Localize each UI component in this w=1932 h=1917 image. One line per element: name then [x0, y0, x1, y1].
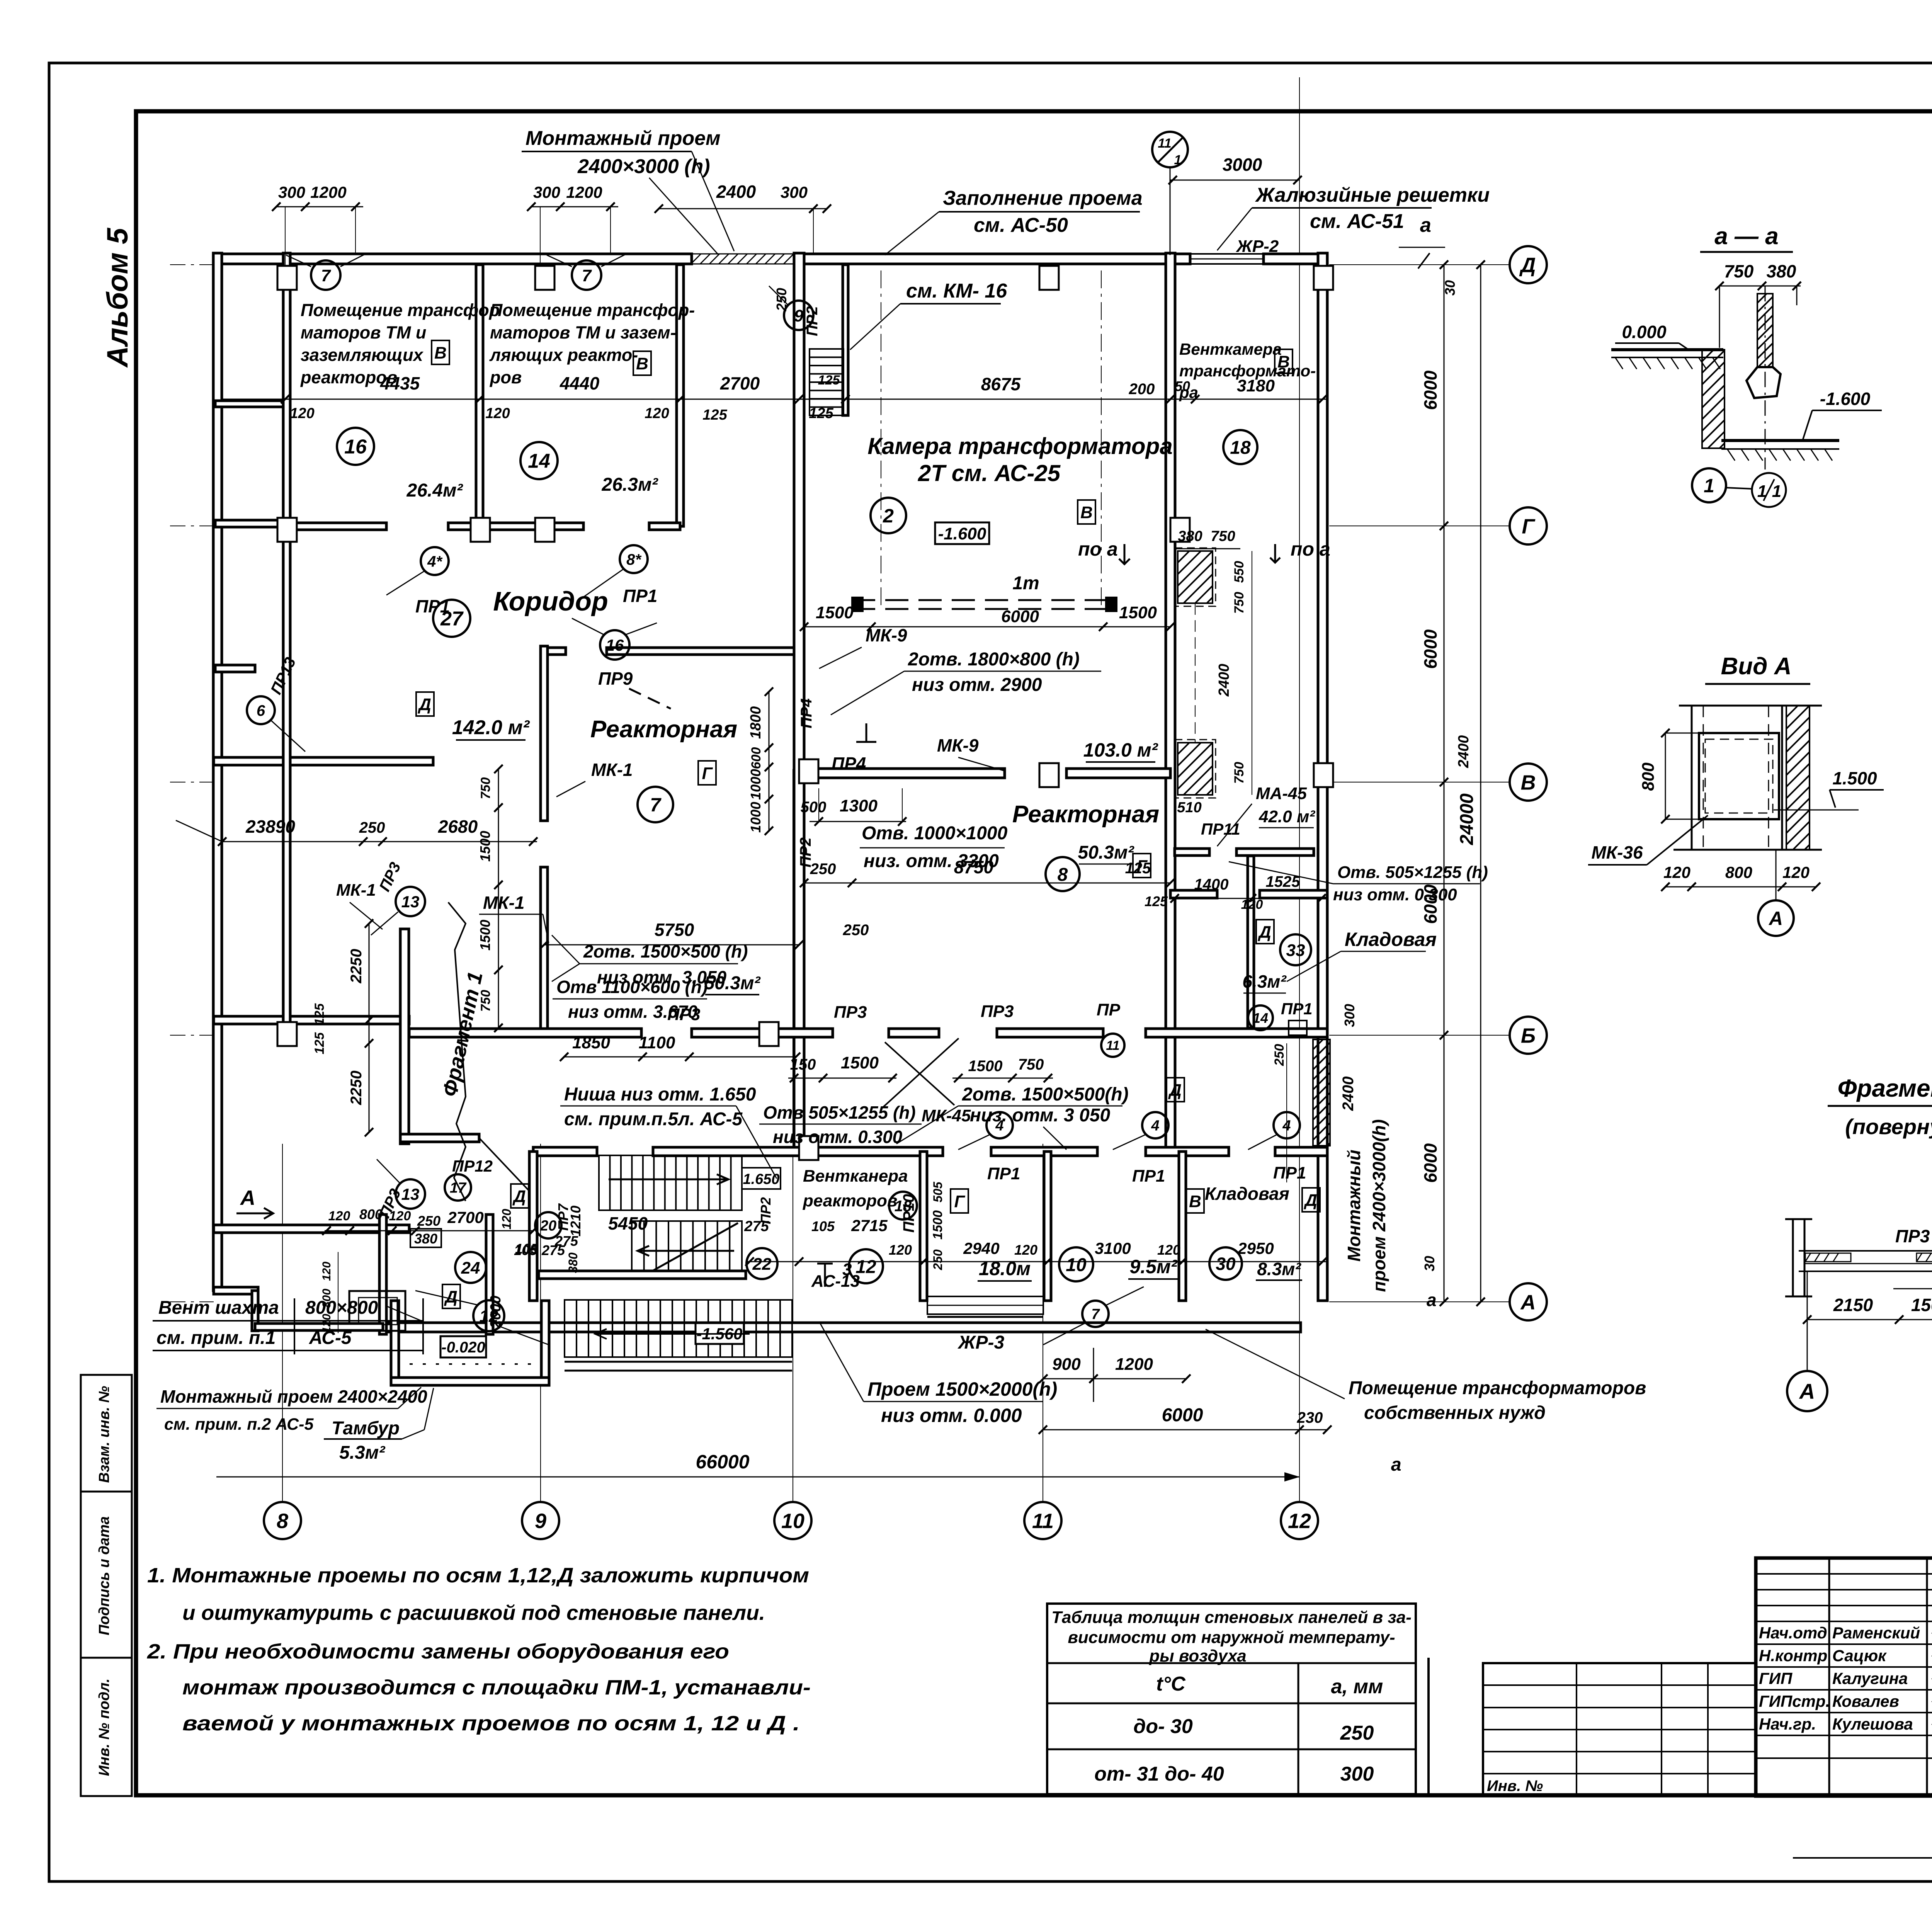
svg-text:900: 900: [1052, 1355, 1081, 1374]
level box -1.600: [935, 522, 989, 544]
svg-text:ПР: ПР: [1097, 1000, 1121, 1019]
svg-text:по а: по а: [1078, 538, 1118, 560]
view A shaft walls: [1679, 705, 1822, 707]
svg-text:Отв 1100×600 (h): Отв 1100×600 (h): [556, 977, 707, 997]
svg-text:2отв. 1500×500(h): 2отв. 1500×500(h): [962, 1084, 1129, 1105]
T3 mark: [817, 1264, 833, 1287]
svg-text:5.3м²: 5.3м²: [339, 1442, 386, 1463]
svg-text:250: 250: [931, 1249, 945, 1271]
svg-text:Д: Д: [1257, 923, 1271, 942]
vertical wall right of room 14: [677, 265, 684, 526]
svg-text:18.0м: 18.0м: [979, 1258, 1031, 1279]
svg-text:ПР9: ПР9: [598, 668, 633, 689]
svg-text:1100: 1100: [639, 1033, 675, 1052]
svg-text:1500: 1500: [841, 1053, 879, 1072]
svg-text:Реакторная: Реакторная: [590, 716, 737, 743]
left dim chain 750 1500 1500 750: [498, 769, 499, 1028]
svg-text:2150: 2150: [1833, 1295, 1873, 1315]
stairwell lower flight treads: [632, 1221, 742, 1271]
svg-text:16: 16: [606, 636, 624, 654]
svg-text:В: В: [1277, 352, 1290, 371]
svg-text:13: 13: [401, 1185, 420, 1203]
svg-text:4: 4: [995, 1118, 1003, 1134]
svg-text:Венткамера: Венткамера: [1179, 340, 1282, 358]
box 380: [410, 1229, 441, 1247]
svg-text:МК-1: МК-1: [336, 881, 376, 900]
svg-text:МК-9: МК-9: [937, 735, 979, 755]
svg-text:1525: 1525: [1266, 873, 1301, 890]
svg-text:8*: 8*: [626, 551, 642, 568]
svg-text:230: 230: [1297, 1409, 1323, 1426]
svg-text:Нач.гр.: Нач.гр.: [1759, 1715, 1816, 1733]
dim 8750 row: [804, 883, 1170, 884]
svg-text:1210: 1210: [568, 1206, 583, 1237]
circle 12 room: [849, 1249, 883, 1283]
svg-text:ляющих реакто-: ляющих реакто-: [489, 345, 638, 365]
svg-text:ПР10: ПР10: [900, 1194, 917, 1233]
svg-text:Г: Г: [1522, 515, 1536, 538]
svg-text:Инв. № подл.: Инв. № подл.: [96, 1679, 112, 1776]
svg-text:380: 380: [566, 1252, 580, 1273]
view A axis circle A: [1776, 850, 1777, 900]
svg-text:1500: 1500: [1119, 603, 1157, 622]
circle 17 PR12: [445, 1174, 471, 1201]
svg-text:1800: 1800: [748, 706, 764, 739]
svg-text:см. прим.п.5л. АС-5: см. прим.п.5л. АС-5: [564, 1109, 743, 1129]
svg-text:120: 120: [500, 1209, 514, 1230]
svg-text:300: 300: [781, 183, 808, 201]
fragment 1 left column: [1793, 1219, 1804, 1296]
svg-text:1000: 1000: [748, 802, 764, 833]
svg-text:510: 510: [1177, 799, 1201, 816]
svg-text:250: 250: [1272, 1044, 1287, 1067]
door circle 16 PR9: [600, 630, 629, 660]
stairwell bottom wall: [539, 1271, 746, 1279]
bottom band top wall: [533, 1147, 597, 1156]
vent squares right column: [1178, 551, 1213, 603]
svg-text:4: 4: [1151, 1118, 1159, 1134]
axis V wall MK-9: [804, 769, 1005, 778]
svg-text:6000: 6000: [1162, 1405, 1203, 1425]
svg-text:низ отм. 0.300: низ отм. 0.300: [773, 1127, 903, 1147]
svg-text:120: 120: [485, 405, 510, 422]
room 33 circle: [1280, 934, 1311, 965]
svg-text:1.650: 1.650: [743, 1171, 779, 1187]
kamera circle 2: [871, 498, 906, 533]
svg-text:см. прим. п.1: см. прим. п.1: [156, 1328, 276, 1348]
svg-text:4*: 4*: [427, 553, 443, 570]
svg-text:Д: Д: [512, 1187, 526, 1206]
svg-text:Ниша низ отм. 1.650: Ниша низ отм. 1.650: [564, 1084, 756, 1105]
svg-text:750: 750: [1232, 592, 1247, 614]
vent shaft box: [349, 1291, 405, 1331]
svg-text:ПР12: ПР12: [452, 1157, 493, 1175]
svg-text:Вид А: Вид А: [1721, 653, 1792, 680]
svg-text:В: В: [434, 344, 447, 362]
svg-text:см. КМ- 16: см. КМ- 16: [906, 280, 1007, 302]
svg-text:Д: Д: [444, 1288, 457, 1306]
zhr-3 grille bottom: [927, 1296, 1043, 1314]
svg-text:9.5м²: 9.5м²: [1129, 1256, 1177, 1277]
svg-text:по а: по а: [1291, 538, 1330, 560]
svg-text:1850: 1850: [572, 1033, 610, 1052]
svg-text:26.4м²: 26.4м²: [406, 480, 464, 501]
left bottom corner walls: [214, 1287, 258, 1294]
svg-text:120: 120: [290, 405, 314, 422]
svg-text:1300: 1300: [840, 796, 878, 815]
svg-text:30: 30: [1442, 280, 1458, 296]
dim 1850 1100: [564, 1056, 796, 1058]
svg-text:2400: 2400: [1340, 1077, 1357, 1111]
svg-text:800: 800: [359, 1206, 383, 1222]
svg-text:125: 125: [702, 407, 727, 423]
svg-text:103.0 м²: 103.0 м²: [1083, 739, 1158, 761]
svg-text:22: 22: [752, 1255, 772, 1274]
svg-text:t°C: t°C: [1156, 1673, 1186, 1695]
svg-text:800×800: 800×800: [305, 1298, 378, 1318]
svg-text:ПР2: ПР2: [804, 306, 821, 336]
svg-text:26.3м²: 26.3м²: [602, 475, 659, 495]
svg-text:МК-45: МК-45: [922, 1106, 971, 1125]
room 16 circle: [337, 428, 374, 465]
svg-text:2700: 2700: [720, 373, 760, 393]
svg-text:1500: 1500: [930, 1210, 945, 1240]
svg-text:Монтажный проем 2400×2400: Монтажный проем 2400×2400: [160, 1386, 427, 1407]
door circles 4 bottom band: [986, 1112, 1013, 1138]
svg-text:120: 120: [320, 1314, 333, 1333]
room 33 box D: [1256, 920, 1274, 944]
svg-text:120: 120: [1782, 863, 1810, 881]
level box -0.020: [440, 1336, 486, 1357]
svg-text:250: 250: [359, 819, 385, 836]
wall right of stair km-16: [843, 265, 848, 415]
view A bottom break line: [1673, 849, 1822, 851]
box D near PR: [1167, 1078, 1184, 1102]
svg-text:1: 1: [1174, 153, 1182, 167]
svg-text:30: 30: [1422, 1256, 1437, 1271]
svg-text:8675: 8675: [981, 374, 1021, 394]
svg-text:50.3м²: 50.3м²: [704, 973, 761, 993]
svg-text:125: 125: [818, 373, 840, 388]
svg-text:2250: 2250: [348, 949, 365, 984]
svg-text:4440: 4440: [560, 373, 600, 393]
svg-text:Подпись и дата: Подпись и дата: [96, 1516, 112, 1635]
left rooms divider wall y1730: [215, 665, 255, 672]
stairwell upper flight treads: [599, 1155, 742, 1210]
svg-text:11: 11: [1106, 1038, 1119, 1053]
svg-text:142.0 м²: 142.0 м²: [452, 716, 530, 739]
svg-text:7: 7: [1091, 1306, 1100, 1323]
circle 10 room: [1059, 1247, 1093, 1281]
section a-a embedded part: [1757, 294, 1773, 367]
svg-text:а: а: [1420, 214, 1431, 236]
svg-text:от- 31 до- 40: от- 31 до- 40: [1094, 1763, 1224, 1785]
svg-text:Жалюзийные решетки: Жалюзийные решетки: [1255, 184, 1490, 206]
svg-text:6: 6: [257, 702, 265, 719]
main wall x3029: [1166, 253, 1175, 1147]
svg-text:1: 1: [1704, 475, 1714, 497]
svg-text:120: 120: [645, 405, 669, 422]
svg-text:Д: Д: [1519, 253, 1536, 277]
svg-text:4: 4: [1282, 1118, 1291, 1134]
svg-text:1. Монтажные проемы по о: 1. Монтажные проемы по осям 1,12,Д залож…: [147, 1564, 809, 1587]
title block left small rows: [1756, 1573, 1932, 1575]
svg-text:2700: 2700: [447, 1208, 483, 1226]
svg-text:250: 250: [843, 922, 869, 939]
svg-text:Д: Д: [417, 695, 431, 714]
svg-text:125: 125: [312, 1032, 327, 1055]
boxes bottom band: [511, 1184, 529, 1208]
svg-text:800: 800: [1725, 863, 1752, 881]
svg-text:см. АС-51: см. АС-51: [1310, 210, 1404, 233]
svg-text:Монтажный проем: Монтажный проем: [526, 127, 721, 150]
title block frame: [1756, 1558, 1932, 1796]
svg-text:а: а: [1391, 1454, 1401, 1475]
svg-text:реакторов: реакторов: [803, 1191, 897, 1210]
room 33 dividing wall: [1170, 890, 1217, 898]
svg-text:Коридор: Коридор: [493, 586, 608, 616]
svg-text:Г: Г: [702, 764, 713, 783]
svg-text:30: 30: [1216, 1254, 1236, 1274]
svg-text:11: 11: [1158, 136, 1171, 151]
svg-text:2940: 2940: [963, 1239, 999, 1257]
svg-text:800: 800: [1639, 762, 1658, 791]
door circle 14 PR1 right: [1248, 1005, 1273, 1030]
svg-text:505: 505: [931, 1181, 945, 1203]
left dim chain 1800 600 1000 1000: [769, 692, 770, 831]
svg-text:66000: 66000: [696, 1451, 749, 1473]
tambour vestibule: [391, 1301, 399, 1385]
svg-text:проем 2400×3000(h): проем 2400×3000(h): [1369, 1119, 1389, 1292]
svg-text:а: а: [1427, 1290, 1437, 1310]
axis dashdot stubs left: [170, 264, 214, 265]
right axis lines to circles: [1329, 264, 1509, 265]
bottom wall of rooms 16 14 with door gaps: [287, 523, 386, 530]
section a-a node circles 1 and 1/1: [1692, 468, 1726, 502]
svg-text:ров: ров: [490, 367, 522, 387]
door circle 6 PR13 left: [247, 696, 275, 724]
axis line 10: [793, 769, 793, 1502]
section a-a floor slab left: [1611, 348, 1723, 351]
svg-text:низ отм. 0.000: низ отм. 0.000: [881, 1405, 1022, 1426]
dim 23890 250 2680: [222, 841, 537, 842]
svg-text:300: 300: [1342, 1004, 1357, 1027]
main longitudinal wall x2068: [794, 253, 804, 1147]
dim 5750 row: [544, 944, 799, 946]
svg-text:2950: 2950: [1237, 1239, 1274, 1257]
fragment cut circles 13: [396, 887, 425, 916]
wall thickness table: [1047, 1604, 1416, 1794]
svg-text:6000: 6000: [1001, 607, 1039, 626]
bottom exterior wall of lower band: [383, 1323, 1301, 1332]
svg-text:250: 250: [774, 288, 789, 311]
svg-text:Д: Д: [1303, 1191, 1317, 1210]
svg-text:150: 150: [790, 1056, 816, 1073]
svg-text:маторов ТМ и зазем-: маторов ТМ и зазем-: [490, 323, 676, 342]
svg-text:250: 250: [417, 1213, 440, 1229]
svg-text:Отв 505×1255 (h): Отв 505×1255 (h): [763, 1102, 916, 1123]
tambour right wall: [486, 1214, 493, 1334]
svg-text:ПР1: ПР1: [623, 586, 657, 606]
svg-text:120: 120: [320, 1262, 333, 1281]
svg-text:а — а: а — а: [1714, 223, 1778, 250]
dash-dot line near stair: [881, 270, 881, 607]
bottom band wall x3060: [1179, 1152, 1186, 1301]
svg-text:В: В: [1521, 771, 1536, 794]
svg-text:2Т см. АС-25: 2Т см. АС-25: [918, 460, 1061, 486]
bottom left rooms wall: [214, 1225, 409, 1233]
svg-text:Помещение трансфор-: Помещение трансфор-: [490, 300, 695, 320]
svg-text:Помещение трансфор: Помещение трансфор: [301, 300, 500, 320]
inventory grid left of title block: [1483, 1663, 1756, 1796]
room 14 circle: [520, 442, 558, 479]
top node circle 11/1: [1152, 132, 1188, 167]
svg-text:250: 250: [810, 861, 836, 878]
svg-text:275: 275: [744, 1218, 769, 1235]
right vertical dim line 24000: [1480, 265, 1481, 1302]
svg-text:9: 9: [535, 1509, 546, 1533]
circle 22 stairwell: [747, 1248, 777, 1279]
svg-text:1400: 1400: [1194, 876, 1229, 893]
svg-text:Фрагмент 1: Фрагмент 1: [1837, 1074, 1932, 1102]
level 1.650 box: [742, 1168, 781, 1189]
top exterior wall: [214, 254, 692, 264]
svg-text:250: 250: [1340, 1722, 1374, 1744]
svg-text:1: 1: [1772, 482, 1781, 501]
svg-text:14: 14: [528, 450, 550, 473]
svg-text:1500: 1500: [816, 603, 854, 622]
svg-text:ПР1: ПР1: [1132, 1167, 1165, 1186]
svg-text:и оштукатурить с расшивкой: и оштукатурить с расшивкой под стеновые …: [182, 1601, 765, 1624]
svg-text:Отв. 505×1255 (h): Отв. 505×1255 (h): [1337, 863, 1488, 882]
svg-text:МК-9: МК-9: [866, 625, 907, 645]
door circle 4*: [421, 547, 449, 575]
svg-text:6.3м²: 6.3м²: [1242, 971, 1287, 992]
svg-text:(повернута): (повернута): [1845, 1114, 1932, 1139]
svg-text:750: 750: [1724, 261, 1754, 281]
svg-text:3000: 3000: [1223, 155, 1262, 175]
svg-text:2. При необходимости замены: 2. При необходимости замены оборудования…: [147, 1640, 729, 1663]
svg-text:1500: 1500: [477, 920, 493, 951]
svg-text:см. АС-50: см. АС-50: [974, 214, 1068, 236]
svg-text:3100: 3100: [1095, 1239, 1131, 1257]
bottom band dim row: [746, 1261, 1327, 1262]
svg-text:750: 750: [1211, 528, 1235, 544]
svg-text:МА-45: МА-45: [1256, 784, 1307, 803]
svg-text:Заполнение проема: Заполнение проема: [943, 187, 1143, 209]
door swing diagonals B wall: [881, 1038, 959, 1109]
bottom band wall x1380: [529, 1152, 537, 1301]
svg-text:125: 125: [1145, 893, 1168, 909]
fragment jog wall bottom: [400, 1134, 479, 1142]
svg-text:20: 20: [540, 1218, 556, 1234]
svg-text:2000: 2000: [488, 1296, 504, 1329]
svg-text:16: 16: [344, 436, 367, 458]
svg-text:Альбом 5: Альбом 5: [101, 227, 134, 368]
svg-text:5750: 5750: [655, 920, 694, 940]
svg-text:300: 300: [278, 183, 305, 201]
svg-text:300: 300: [533, 183, 560, 201]
svg-text:380: 380: [414, 1231, 437, 1247]
svg-text:Вентканера: Вентканера: [803, 1167, 908, 1186]
svg-text:Н.контр: Н.контр: [1759, 1647, 1827, 1665]
axis line 8: [282, 1144, 283, 1502]
vertical wall between rooms 16 and 14: [476, 265, 483, 526]
svg-text:14: 14: [1253, 1010, 1268, 1026]
dim row 4435 4440 2700 etc: [222, 399, 1327, 400]
room 33 top wall: [1175, 849, 1209, 856]
svg-text:1500: 1500: [477, 831, 493, 862]
svg-text:1000: 1000: [748, 769, 764, 800]
circle 30 room: [1209, 1247, 1242, 1280]
svg-text:125: 125: [312, 1003, 327, 1026]
wall between rooms 15 and 16 horizontal: [215, 401, 287, 407]
svg-text:23890: 23890: [245, 816, 295, 837]
svg-text:ра: ра: [1179, 383, 1198, 401]
svg-text:1т: 1т: [1012, 573, 1039, 594]
svg-text:27: 27: [440, 608, 464, 630]
svg-text:10: 10: [781, 1509, 804, 1533]
svg-text:Кладовая: Кладовая: [1205, 1184, 1289, 1204]
svg-text:ПР4: ПР4: [798, 698, 815, 728]
svg-text:Монтажный: Монтажный: [1344, 1150, 1364, 1262]
section a-a bottom slab: [1721, 439, 1839, 442]
svg-text:Калугина: Калугина: [1832, 1669, 1908, 1687]
lower protruding stair: [565, 1300, 792, 1357]
room 7 top wall with PR9 gap: [544, 648, 566, 655]
svg-text:12: 12: [1288, 1509, 1311, 1533]
level box -1.560: [696, 1323, 744, 1344]
svg-text:120: 120: [1157, 1242, 1180, 1258]
svg-text:7: 7: [650, 794, 662, 816]
svg-text:см. прим. п.2 АС-5: см. прим. п.2 АС-5: [164, 1415, 314, 1434]
fragment jog wall vertical: [400, 929, 409, 1144]
svg-text:Взам. инв. №: Взам. инв. №: [96, 1386, 112, 1483]
svg-text:120: 120: [889, 1242, 912, 1258]
svg-text:120: 120: [1663, 863, 1690, 881]
svg-text:Таблица толщин стеновых панеле: Таблица толщин стеновых панелей в за-: [1051, 1608, 1412, 1627]
svg-text:2400×3000 (h): 2400×3000 (h): [577, 155, 710, 178]
svg-text:600: 600: [749, 747, 764, 769]
axis line 9: [540, 1144, 541, 1502]
fragment 1 dims: [1807, 1319, 1932, 1320]
svg-text:2отв. 1800×800 (h): 2отв. 1800×800 (h): [908, 649, 1080, 670]
svg-text:Вент шахта: Вент шахта: [158, 1298, 279, 1318]
svg-text:а, мм: а, мм: [1331, 1675, 1383, 1698]
room 14 category box: [633, 351, 651, 375]
svg-text:А: А: [1768, 908, 1783, 929]
corridor circle 27: [433, 600, 470, 637]
svg-text:Д: Д: [1168, 1081, 1182, 1100]
svg-text:Г: Г: [954, 1192, 965, 1211]
svg-text:120: 120: [389, 1209, 411, 1223]
hatched opening right wall: [1313, 1039, 1330, 1146]
svg-text:42.0 м²: 42.0 м²: [1259, 807, 1315, 826]
svg-text:ЖР-3: ЖР-3: [957, 1332, 1005, 1353]
svg-text:550: 550: [1232, 561, 1247, 583]
svg-text:МК-1: МК-1: [591, 760, 633, 780]
right exterior wall: [1318, 253, 1327, 1301]
svg-text:Кладовая: Кладовая: [1345, 929, 1437, 950]
bottom band wall x2711: [1044, 1152, 1051, 1301]
svg-text:В: В: [636, 354, 648, 373]
svg-text:105: 105: [811, 1218, 835, 1234]
svg-text:24000: 24000: [1457, 793, 1477, 845]
bottom band wall x2390: [920, 1152, 927, 1301]
room 18 box V: [1275, 349, 1293, 373]
svg-text:ПР11: ПР11: [1201, 820, 1240, 838]
svg-text:-1.600: -1.600: [938, 524, 986, 543]
